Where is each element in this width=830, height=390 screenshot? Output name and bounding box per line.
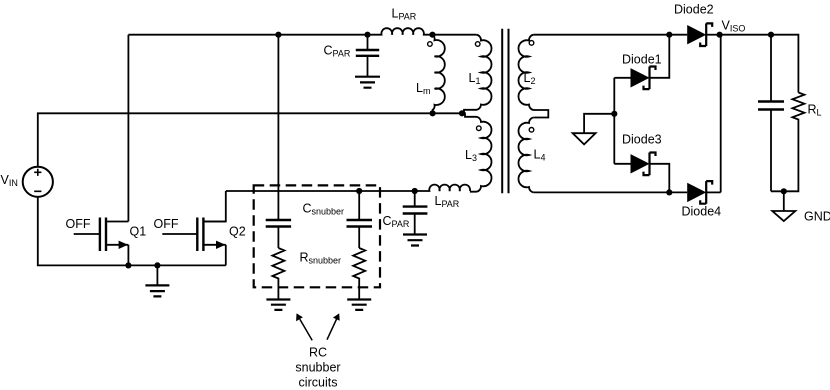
snubber dashed box	[254, 185, 380, 287]
phase dot L4	[529, 128, 534, 133]
node top rail / snubber 1	[275, 32, 281, 38]
capacitor Csnubber 1	[266, 220, 291, 248]
arrow to snubber 2	[327, 313, 340, 339]
wire VIN+ to center-tap rail	[38, 113, 462, 166]
wire Diode1 cathode riser	[650, 35, 670, 78]
ground GND (triangle)	[772, 211, 795, 221]
node output cap top	[768, 32, 774, 38]
svg-text:OFF: OFF	[66, 217, 91, 231]
phase dot Lm	[428, 42, 433, 47]
capacitor output	[758, 35, 784, 192]
node primary center tap	[459, 110, 465, 116]
winding L3	[462, 113, 492, 191]
diode Diode3	[614, 153, 655, 176]
node top rail / CPAR top	[364, 32, 370, 38]
wire snubber 1 feed (crosses drain rail)	[277, 35, 279, 220]
svg-text:Diode3: Diode3	[622, 133, 662, 147]
transistor Q1	[74, 218, 129, 252]
node drain rail / snubber 2	[356, 188, 362, 194]
wire snubber 2 feed	[358, 191, 360, 220]
diode Diode2	[687, 23, 719, 46]
ground (snubber 1)	[266, 300, 290, 310]
wire Q2 drain riser to snubber rail	[203, 191, 225, 222]
node drain rail / CPAR bottom	[412, 188, 418, 194]
svg-text:RC: RC	[309, 345, 327, 359]
diode Diode1	[614, 67, 655, 90]
wire ground stub	[783, 191, 785, 211]
node Q1 source junction	[125, 262, 131, 268]
voltage source VIN	[23, 167, 53, 197]
winding L1	[464, 35, 492, 114]
transformer core	[502, 29, 508, 193]
diode Diode4	[687, 181, 721, 204]
svg-text:Q2: Q2	[229, 225, 246, 239]
wire top rail to L1	[433, 34, 477, 36]
node Diode3/Diode4 junction	[666, 189, 672, 195]
wire Q2 source drop	[225, 245, 227, 266]
capacitor Csnubber 2	[347, 220, 373, 248]
wire Diode4 cathode riser to VISO	[720, 35, 722, 193]
node LPAR / Lm top	[429, 32, 435, 38]
resistor Rsnubber 2	[353, 248, 365, 300]
resistor Rsnubber 1	[272, 248, 284, 300]
winding L2	[518, 35, 548, 118]
wire secondary bottom rail	[534, 191, 687, 193]
capacitor CPAR (top)	[356, 35, 379, 77]
label RC snubber circuits	[295, 345, 340, 389]
resistor RL	[771, 93, 804, 192]
node output ground junction	[781, 188, 787, 194]
svg-text:Diode2: Diode2	[674, 3, 714, 17]
ground (CPAR top)	[355, 77, 380, 88]
svg-text:OFF: OFF	[154, 217, 179, 231]
wire Diode3 cathode drop	[650, 164, 670, 193]
wire top rail	[128, 34, 367, 36]
inductor LPAR (bottom)	[415, 185, 470, 191]
ground (sources)	[145, 265, 169, 296]
wire ground tap stub	[584, 114, 614, 133]
wire secondary top rail	[534, 34, 687, 36]
wire output top rail	[720, 35, 799, 93]
wire drain rail (Q2 to LPAR)	[226, 190, 415, 192]
transistor Q2	[162, 218, 226, 252]
ground (secondary tap, triangle)	[573, 133, 596, 144]
svg-text:GND: GND	[804, 210, 830, 224]
wire Q1 source drop	[127, 245, 129, 266]
phase dot L1	[475, 42, 480, 47]
svg-text:Q1: Q1	[130, 225, 147, 239]
phase dot L3	[477, 126, 482, 131]
phase dot L2	[529, 41, 534, 46]
wire Diode1 anode drop	[613, 78, 615, 164]
inductor Lm (magnetizing)	[433, 35, 445, 114]
node ground junction	[154, 262, 160, 268]
ground (snubber 2)	[347, 300, 371, 310]
ground (CPAR bottom)	[403, 235, 427, 246]
capacitor CPAR (bottom)	[403, 191, 428, 234]
svg-text:snubber: snubber	[295, 360, 340, 374]
inductor LPAR (top)	[368, 28, 433, 35]
svg-text:Diode4: Diode4	[682, 205, 722, 219]
node Lm bottom / center tap rail	[430, 110, 436, 116]
arrow to snubber 1	[296, 313, 312, 340]
svg-text:Diode1: Diode1	[622, 53, 662, 67]
svg-text:circuits: circuits	[299, 375, 338, 389]
node anode junction (ground tap)	[611, 111, 617, 117]
wire VIN- to bottom source rail	[38, 197, 226, 266]
winding L4	[518, 118, 533, 193]
node Diode1/Diode2 junction	[666, 32, 672, 38]
wire Q1 drain riser	[127, 35, 129, 222]
node VISO	[717, 32, 723, 38]
